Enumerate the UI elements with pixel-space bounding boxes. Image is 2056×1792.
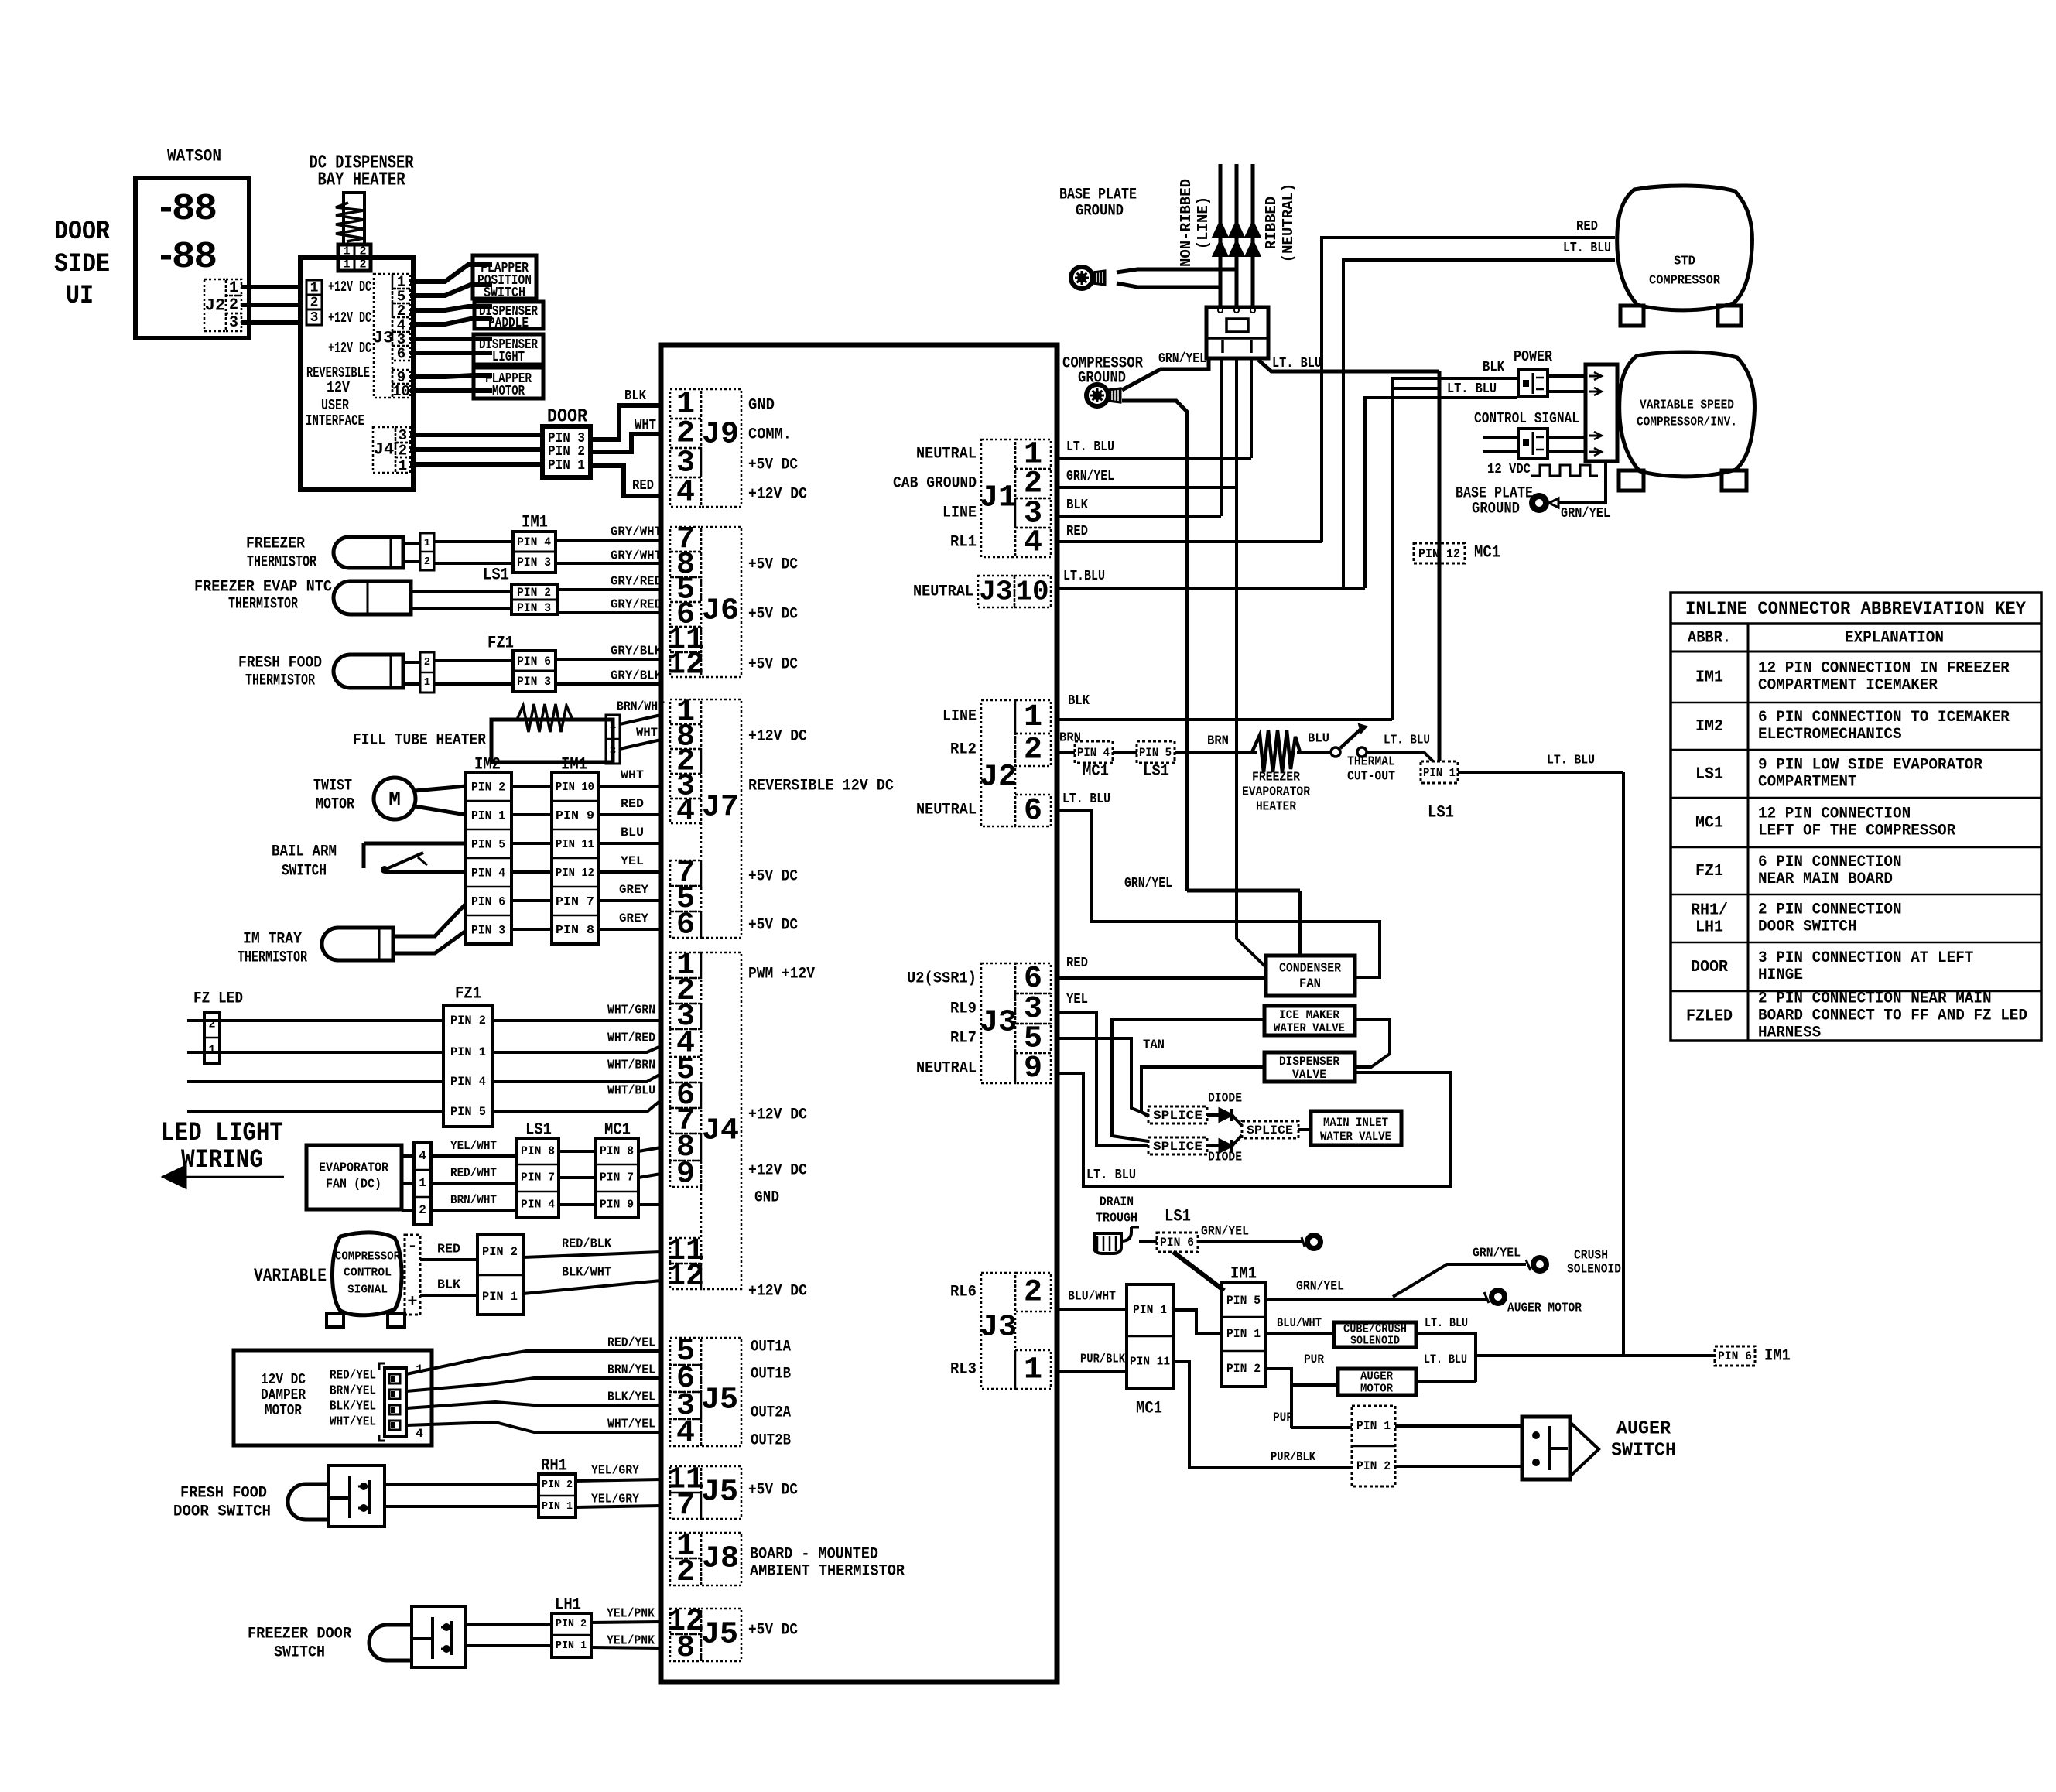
svg-text:FREEZER EVAP NTC: FREEZER EVAP NTC [194, 579, 332, 597]
svg-text:LS1: LS1 [525, 1120, 552, 1140]
wire WHT/BLU to J4-6 [493, 1100, 661, 1112]
svg-text:PIN 11: PIN 11 [1130, 1356, 1170, 1369]
svg-text:BLU: BLU [1308, 732, 1329, 747]
svg-text:MC1: MC1 [1083, 763, 1109, 781]
svg-text:PIN 5: PIN 5 [1139, 746, 1172, 760]
svg-text:CUT-OUT: CUT-OUT [1347, 770, 1395, 785]
wire switch to RH1 [385, 1483, 539, 1486]
wire RED J1-4 to STD compressor [1057, 540, 1322, 543]
connector +/- (variable) [405, 1235, 420, 1315]
wire J3-2 to dispenser paddle [410, 306, 492, 310]
svg-text:PIN 7: PIN 7 [600, 1171, 634, 1185]
svg-text:4: 4 [416, 1427, 423, 1441]
svg-text:YEL/PNK: YEL/PNK [607, 1607, 655, 1622]
svg-text:DRAIN: DRAIN [1100, 1195, 1134, 1210]
svg-text:BASE PLATE: BASE PLATE [1059, 186, 1137, 204]
svg-text:LT. BLU: LT. BLU [1425, 1316, 1468, 1330]
svg-text:PIN 12: PIN 12 [1418, 547, 1460, 561]
svg-text:10: 10 [1015, 576, 1049, 608]
svg-text:LT. BLU: LT. BLU [1066, 439, 1114, 455]
wire YEL IM1-12 to J7-7 [598, 870, 661, 874]
svg-text:J7: J7 [702, 791, 739, 826]
svg-text:ABBR.: ABBR. [1688, 630, 1731, 648]
svg-text:STD: STD [1674, 255, 1695, 269]
svg-text:RL7: RL7 [950, 1030, 977, 1048]
svg-text:1: 1 [424, 537, 430, 549]
svg-text:SPLICE: SPLICE [1153, 1140, 1202, 1154]
svg-text:RED/BLK: RED/BLK [562, 1237, 612, 1252]
svg-text:COMPRESSOR/INV.: COMPRESSOR/INV. [1637, 416, 1737, 430]
wire ice maker valve to splice [1112, 1020, 1264, 1141]
svg-text:LH1: LH1 [1695, 919, 1723, 937]
svg-text:VARIABLE: VARIABLE [254, 1267, 327, 1288]
svg-text:CONTROL SIGNAL: CONTROL SIGNAL [1474, 410, 1579, 427]
svg-text:PIN 3: PIN 3 [517, 556, 551, 569]
wire LS1 PIN6 to IM1 PIN5 diagonal [1173, 1252, 1224, 1291]
svg-text:LT. BLU: LT. BLU [1086, 1168, 1136, 1183]
svg-text:COMM.: COMM. [748, 426, 792, 444]
svg-text:PIN 2: PIN 2 [542, 1479, 573, 1491]
motor 12V DC DAMPER MOTOR [234, 1350, 432, 1445]
svg-text:BLU: BLU [621, 826, 644, 840]
svg-text:VALVE: VALVE [1292, 1068, 1326, 1082]
svg-text:1: 1 [343, 258, 350, 272]
splice SPLICE (yel) [1148, 1137, 1207, 1154]
svg-text:J3: J3 [980, 1006, 1017, 1041]
svg-text:-88: -88 [159, 186, 217, 227]
svg-text:HEATER: HEATER [1256, 800, 1297, 815]
svg-text:AUGER: AUGER [1360, 1370, 1393, 1383]
wire RED IM1-9 to J7-3 [598, 813, 661, 816]
wire BLU/WHT J3-2 to MC1-1 [1057, 1308, 1127, 1311]
wire AC line bus with arrows [1219, 164, 1223, 307]
svg-text:COMPRESSOR: COMPRESSOR [1649, 274, 1721, 289]
svg-text:WHT/GRN: WHT/GRN [607, 1004, 655, 1018]
ground CRUSH SOLENOID [1531, 1255, 1549, 1274]
svg-text:DAMPER: DAMPER [261, 1387, 306, 1404]
svg-text:BLK/WHT: BLK/WHT [562, 1266, 611, 1281]
svg-text:DIODE: DIODE [1208, 1151, 1242, 1165]
svg-text:DOOR SWITCH: DOOR SWITCH [1758, 918, 1857, 936]
svg-text:GND: GND [748, 397, 775, 415]
svg-text:PIN 1: PIN 1 [1226, 1327, 1261, 1341]
svg-text:+5V DC: +5V DC [748, 1622, 798, 1640]
svg-text:LS1: LS1 [1143, 763, 1169, 781]
svg-text:PIN 4: PIN 4 [471, 867, 505, 881]
svg-text:12: 12 [667, 1260, 704, 1294]
wire BRN/WHT to J7-1 [620, 715, 661, 724]
svg-text:THERMISTOR: THERMISTOR [228, 596, 298, 614]
svg-text:PIN 2: PIN 2 [450, 1014, 486, 1028]
svg-text:PIN 8: PIN 8 [521, 1145, 555, 1158]
svg-text:PIN 4: PIN 4 [1077, 746, 1110, 760]
wire WHT to J7-8 [620, 740, 661, 749]
wire fz led pin1 to FZ1 [187, 1051, 443, 1054]
svg-text:UI: UI [66, 282, 94, 311]
connector PIN 5 (LS1) [1137, 741, 1175, 763]
svg-text:PIN 5: PIN 5 [450, 1105, 486, 1119]
svg-text:GRN/YEL: GRN/YEL [1296, 1280, 1344, 1294]
splice SPLICE (main) [1242, 1121, 1298, 1138]
svg-text:+5V DC: +5V DC [748, 1482, 798, 1500]
wire GREY IM1-7 to J7-5 [598, 899, 661, 902]
svg-text:LT. BLU: LT. BLU [1272, 356, 1322, 371]
svg-text:BLK: BLK [624, 388, 646, 404]
svg-text:BRN/WHT: BRN/WHT [450, 1193, 497, 1207]
wire GRN/YEL J1-2 [1057, 486, 1237, 489]
svg-text:FZ1: FZ1 [487, 634, 514, 653]
svg-text:PIN 6: PIN 6 [1718, 1349, 1752, 1363]
connector variable speed inverter [1586, 364, 1617, 461]
svg-text:2: 2 [419, 1203, 426, 1217]
svg-text:10: 10 [392, 383, 410, 400]
wire BRN to heater coil [1175, 751, 1257, 754]
svg-text:+12V DC: +12V DC [328, 340, 371, 357]
inline connector 2-1 (fresh food thermistor) [420, 652, 434, 693]
svg-text:BLK: BLK [1066, 498, 1088, 513]
wires LS1 to MC1 to J4 [559, 1150, 596, 1153]
svg-text:9: 9 [676, 1158, 695, 1192]
solenoid CUBE/CRUSH SOLENOID [1334, 1322, 1416, 1347]
svg-text:YEL: YEL [1066, 992, 1088, 1007]
wire WHT/GRN to J4-3 [493, 1019, 661, 1022]
svg-text:THERMISTOR: THERMISTOR [247, 554, 316, 572]
wire J2 pin2 to UI [241, 303, 302, 307]
svg-text:HARNESS: HARNESS [1758, 1024, 1821, 1042]
svg-text:MOTOR: MOTOR [1360, 1383, 1393, 1396]
svg-text:MOTOR: MOTOR [316, 796, 354, 814]
wire GRN/YEL drain to ground lug [1198, 1240, 1302, 1243]
wire BLK J2-1 to power plug [1057, 718, 1392, 721]
svg-text:2: 2 [424, 556, 430, 568]
wire J3-5 to flapper position switch [410, 285, 492, 296]
svg-text:CONDENSER: CONDENSER [1279, 962, 1342, 976]
svg-text:PIN 9: PIN 9 [556, 809, 594, 822]
svg-text:SWITCH: SWITCH [1611, 1441, 1676, 1462]
svg-text:6 PIN CONNECTION: 6 PIN CONNECTION [1758, 853, 1902, 871]
svg-text:OUT1A: OUT1A [751, 1339, 791, 1356]
svg-text:NEAR MAIN BOARD: NEAR MAIN BOARD [1758, 870, 1893, 888]
svg-text:6: 6 [676, 908, 695, 943]
wire to LS1 pins [411, 590, 511, 593]
wire neutral riser to PIN12/PIN1 [1438, 371, 1442, 761]
svg-text:MAIN INLET: MAIN INLET [1323, 1116, 1388, 1130]
wire WHT/RED to J4-4 [493, 1046, 661, 1052]
svg-text:PIN 12: PIN 12 [556, 867, 594, 880]
svg-text:WATER VALVE: WATER VALVE [1274, 1021, 1345, 1035]
wire UI J4-3 to DOOR pin3 [410, 433, 542, 437]
wire to FZ1 pins [434, 659, 513, 662]
wire PUR/BLK MC1-11 to auger switch PIN2 [1173, 1362, 1352, 1468]
wire LT. BLU cutout to LS1 PIN1 [1367, 752, 1433, 761]
svg-text:RED: RED [437, 1243, 460, 1257]
splice SPLICE (tan) [1148, 1106, 1207, 1123]
wire J3-9 to flapper motor [410, 375, 492, 377]
wire BLU to thermal cut-out [1297, 751, 1330, 754]
svg-text:PIN 3: PIN 3 [517, 601, 551, 615]
svg-text:J1: J1 [980, 481, 1017, 516]
svg-text:PIN 1: PIN 1 [548, 458, 585, 474]
svg-text:OUT2B: OUT2B [751, 1432, 791, 1450]
inline connector 2-1 (fz led) [204, 1013, 220, 1063]
svg-text:MOTOR: MOTOR [492, 384, 525, 399]
svg-text:PIN 4: PIN 4 [521, 1199, 555, 1212]
svg-text:GROUND: GROUND [1472, 501, 1520, 518]
wire J3-1 to flapper position switch [410, 265, 492, 282]
svg-text:LH1: LH1 [555, 1595, 581, 1615]
svg-text:J3: J3 [980, 1311, 1017, 1346]
svg-text:DIODE: DIODE [1208, 1092, 1242, 1106]
svg-text:PIN 4: PIN 4 [517, 535, 551, 549]
wire to FZ1 pin4 [187, 1080, 443, 1083]
svg-text:9: 9 [1024, 1052, 1042, 1086]
svg-text:NEUTRAL: NEUTRAL [916, 802, 977, 819]
connector J5 (freezer door switch) [670, 1609, 701, 1634]
wire dispenser valve to neutral loop LT. BLU [1057, 1072, 1451, 1186]
svg-text:RED: RED [1066, 956, 1088, 971]
wire J2 pin3 to UI [241, 320, 302, 325]
svg-text:6: 6 [397, 346, 405, 363]
wire RED/YEL to J5-5 [406, 1351, 661, 1374]
svg-text:GRN/YEL: GRN/YEL [1473, 1247, 1521, 1261]
switch FLAPPER POSITION SWITCH [473, 255, 536, 299]
svg-text:MOTOR: MOTOR [265, 1402, 302, 1419]
user interface box [300, 258, 413, 490]
svg-text:SIGNAL: SIGNAL [347, 1284, 388, 1297]
svg-text:J6: J6 [702, 594, 739, 629]
svg-text:12V: 12V [327, 379, 351, 396]
svg-text:LT.BLU: LT.BLU [1063, 569, 1105, 584]
svg-text:3 PIN CONNECTION AT LEFT: 3 PIN CONNECTION AT LEFT [1758, 949, 1973, 967]
wire switch to LH1 [466, 1623, 552, 1626]
svg-text:INTERFACE: INTERFACE [306, 412, 364, 429]
wire LT.BLU to power plug [1365, 398, 1517, 588]
wire YEL/GRY to J5-11 [576, 1479, 661, 1481]
svg-text:PIN 2: PIN 2 [471, 781, 505, 795]
svg-text:VARIABLE SPEED: VARIABLE SPEED [1640, 398, 1734, 413]
svg-text:PIN 1: PIN 1 [556, 1640, 587, 1652]
svg-text:+5V DC: +5V DC [748, 606, 798, 624]
svg-text:WHT/RED: WHT/RED [607, 1031, 655, 1046]
svg-text:NEUTRAL: NEUTRAL [913, 583, 973, 601]
svg-text:2: 2 [359, 258, 366, 272]
svg-text:GRN/YEL: GRN/YEL [1158, 351, 1206, 367]
wire J3-3 to dispenser light [410, 337, 492, 341]
fan CONDENSER FAN [1266, 956, 1355, 996]
svg-text:NEUTRAL: NEUTRAL [916, 446, 977, 463]
svg-text:YEL/PNK: YEL/PNK [607, 1634, 655, 1649]
svg-text:2: 2 [1024, 734, 1042, 768]
connector J1 (main board AC in) [981, 439, 1015, 557]
svg-text:IM1: IM1 [1764, 1346, 1791, 1366]
svg-text:IM2: IM2 [1695, 718, 1723, 736]
svg-text:PIN 10: PIN 10 [556, 781, 594, 794]
wire WHT/BRN to J4-5 [493, 1074, 661, 1082]
svg-text:PIN 3: PIN 3 [471, 924, 505, 938]
svg-text:PUR/BLK: PUR/BLK [1271, 1450, 1315, 1464]
wire base plate ground to line bus [1117, 269, 1237, 272]
svg-text:WHT/BRN: WHT/BRN [607, 1058, 655, 1073]
svg-text:PIN 8: PIN 8 [556, 924, 594, 937]
wire BRN/WHT [431, 1209, 517, 1212]
svg-text:SOLENOID: SOLENOID [1350, 1335, 1400, 1348]
svg-text:OUT1B: OUT1B [751, 1366, 791, 1383]
wire DOOR pin3 BLK to J9-1 [590, 405, 661, 439]
inline connector 1-3 (fill tube heater) [606, 715, 620, 764]
svg-text:+12V DC: +12V DC [748, 486, 807, 504]
wire GRY/RED to J6-6 [557, 611, 661, 614]
wire RED to PIN2 [420, 1258, 477, 1261]
svg-text:SOLENOID: SOLENOID [1567, 1263, 1621, 1277]
svg-text:FZ LED: FZ LED [193, 990, 243, 1008]
svg-text:EXPLANATION: EXPLANATION [1845, 630, 1944, 648]
svg-text:PIN 6: PIN 6 [471, 895, 505, 909]
connector J4 (main board) [670, 952, 701, 978]
svg-text:2 PIN CONNECTION NEAR MAIN: 2 PIN CONNECTION NEAR MAIN [1758, 990, 1992, 1008]
svg-text:1: 1 [399, 457, 407, 474]
svg-text:GREY: GREY [619, 883, 648, 897]
svg-text:J3: J3 [979, 576, 1012, 608]
svg-text:BOARD CONNECT TO FF AND FZ LED: BOARD CONNECT TO FF AND FZ LED [1758, 1007, 2027, 1025]
wire GRN/YEL J2 riser to condenser fan [1187, 889, 1300, 893]
svg-text:2: 2 [229, 296, 238, 314]
svg-text:YEL: YEL [621, 854, 644, 868]
connector PIN 12 MC1 [1414, 543, 1465, 563]
svg-text:2: 2 [676, 1555, 695, 1590]
wire freezer thermistor to inline conn [403, 542, 420, 545]
wire YEL/GRY to J5-7 [576, 1506, 661, 1507]
damper motor plug [385, 1368, 406, 1436]
svg-text:PIN 3: PIN 3 [517, 675, 551, 689]
wire MC1-1 to IM1-1 [1173, 1310, 1221, 1334]
wire GRN/YEL relay branch to fan [1237, 487, 1266, 967]
svg-text:BLU/WHT: BLU/WHT [1068, 1290, 1116, 1305]
valve MAIN INLET WATER VALVE [1298, 1128, 1311, 1131]
svg-text:RL1: RL1 [950, 534, 977, 552]
svg-text:PIN 5: PIN 5 [1226, 1294, 1261, 1308]
svg-text:FZLED: FZLED [1686, 1008, 1733, 1026]
svg-text:THERMAL: THERMAL [1347, 755, 1395, 770]
svg-text:RH1/: RH1/ [1691, 902, 1728, 920]
svg-text:(NEUTRAL): (NEUTRAL) [1280, 183, 1297, 263]
connector J5 (main board outputs) [670, 1338, 701, 1365]
connector J8 (ambient thermistor) [670, 1533, 701, 1558]
svg-text:PIN 5: PIN 5 [471, 838, 505, 852]
svg-text:J5: J5 [701, 1618, 738, 1653]
svg-text:PIN 2: PIN 2 [1356, 1459, 1391, 1473]
svg-text:FZ1: FZ1 [1695, 863, 1723, 881]
svg-text:AUGER MOTOR: AUGER MOTOR [1507, 1301, 1582, 1316]
svg-text:M: M [388, 788, 401, 811]
svg-text:RL9: RL9 [950, 1000, 977, 1018]
svg-text:+5V DC: +5V DC [748, 656, 798, 674]
svg-text:GRY/BLK: GRY/BLK [611, 645, 662, 659]
wire RED/WHT [431, 1182, 517, 1185]
svg-text:RED: RED [1576, 219, 1598, 234]
svg-text:SPLICE: SPLICE [1247, 1123, 1293, 1137]
wire GRY/BLK to J6-11 [556, 658, 661, 661]
svg-text:GRN/YEL: GRN/YEL [1066, 469, 1114, 484]
svg-text:LEFT OF THE COMPRESSOR: LEFT OF THE COMPRESSOR [1758, 822, 1955, 840]
svg-text:RIBBED: RIBBED [1263, 197, 1280, 249]
wire control plug to inverter [1548, 436, 1586, 439]
wire DOOR pin2 WHT to J9-2 [590, 434, 661, 452]
svg-text:CONTROL: CONTROL [344, 1267, 392, 1280]
svg-text:+12V DC: +12V DC [748, 1283, 807, 1301]
svg-text:TWIST: TWIST [313, 778, 352, 795]
svg-text:6 PIN CONNECTION TO ICEMAKER: 6 PIN CONNECTION TO ICEMAKER [1758, 709, 2010, 727]
svg-text:+5V DC: +5V DC [748, 457, 798, 474]
svg-text:ICE MAKER: ICE MAKER [1279, 1008, 1339, 1022]
svg-text:BLK: BLK [1068, 693, 1090, 709]
svg-text:PIN 2: PIN 2 [548, 444, 585, 460]
wire J3-6 to dispenser light [410, 351, 492, 355]
wire WHT/YEL to J5-4 [406, 1422, 661, 1432]
svg-text:EVAPORATOR: EVAPORATOR [319, 1161, 389, 1176]
svg-text:FAN (DC): FAN (DC) [326, 1178, 381, 1192]
svg-text:SWITCH: SWITCH [484, 286, 525, 301]
svg-text:PUR: PUR [1273, 1411, 1293, 1424]
svg-text:PIN 6: PIN 6 [1160, 1236, 1194, 1250]
wire BLK J1-3 [1057, 515, 1221, 518]
connector J3 (user interface) [374, 274, 392, 398]
svg-text:RED/WHT: RED/WHT [450, 1166, 497, 1180]
svg-text:PIN 2: PIN 2 [1226, 1362, 1261, 1376]
wire BLK/YEL to J5-3 [406, 1402, 661, 1408]
wire to inline conn [403, 661, 420, 664]
svg-text:PWM +12V: PWM +12V [748, 966, 815, 983]
svg-text:FAN: FAN [1299, 977, 1321, 992]
svg-text:12 PIN CONNECTION IN FREEZER: 12 PIN CONNECTION IN FREEZER [1758, 660, 2010, 678]
svg-text:GRY/RED: GRY/RED [611, 575, 662, 590]
compressor STD COMPRESSOR [1617, 186, 1753, 310]
svg-text:FRESH FOOD: FRESH FOOD [180, 1485, 267, 1503]
wire to IM1 pins [434, 540, 513, 543]
svg-text:J3: J3 [373, 329, 393, 348]
wire YEL/PNK to J5-8 [591, 1647, 661, 1648]
wire BLU/WHT IM1-1 to cube/crush [1266, 1332, 1334, 1335]
svg-text:YEL/GRY: YEL/GRY [591, 1493, 640, 1507]
wire WHT IM1-10 to J7-2 [598, 785, 661, 788]
svg-text:FZ1: FZ1 [455, 984, 481, 1004]
svg-text:J2: J2 [980, 761, 1017, 795]
wire twist motor to IM2-1 [415, 806, 466, 815]
svg-text:1: 1 [1024, 700, 1042, 735]
svg-text:3: 3 [310, 310, 319, 326]
svg-text:LIGHT: LIGHT [492, 350, 525, 365]
svg-text:J9: J9 [702, 418, 739, 453]
svg-text:WIRING: WIRING [181, 1146, 263, 1175]
svg-text:COMPARTMENT: COMPARTMENT [1758, 774, 1857, 792]
connector UI left 1 2 3 [306, 280, 322, 295]
svg-text:GND: GND [754, 1189, 779, 1207]
wire GRN/YEL base plate to inverter [1549, 498, 1558, 508]
svg-text:GRY/BLK: GRY/BLK [611, 669, 662, 684]
connector J5 (fresh food door switch) [670, 1466, 701, 1493]
wire ice maker valve right to dispenser valve [1355, 1020, 1390, 1067]
svg-text:1: 1 [419, 1176, 426, 1190]
svg-text:4: 4 [676, 476, 695, 511]
svg-text:LS1: LS1 [1695, 766, 1723, 784]
svg-text:SIDE: SIDE [54, 250, 110, 279]
svg-text:RED: RED [632, 478, 654, 494]
svg-text:HINGE: HINGE [1758, 966, 1803, 984]
heater FREEZER EVAPORATOR HEATER coil [1252, 730, 1300, 772]
wire to auger switch [1395, 1424, 1522, 1428]
wire GRN/YEL IM1-5 to auger motor ground [1266, 1298, 1487, 1301]
svg-text:SWITCH: SWITCH [282, 863, 327, 881]
wire im tray to IM2-3 [393, 931, 466, 953]
